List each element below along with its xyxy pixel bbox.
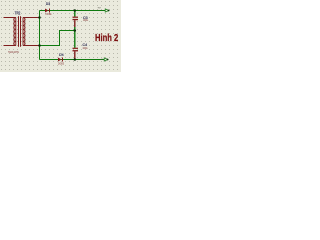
secondary coil bbox=[23, 18, 25, 46]
background bbox=[0, 0, 121, 72]
pin top-left bbox=[4, 17, 16, 19]
pin bottom-left bbox=[4, 45, 16, 47]
wire: bottom rail y=59 from x=39 to arrow bbox=[40, 59, 105, 61]
pin top-right bbox=[23, 17, 40, 19]
junction dot (39,17.5) bbox=[38, 16, 41, 19]
diode D3 bbox=[45, 9, 50, 13]
svg-text:1000u: 1000u bbox=[83, 19, 89, 22]
primary coil baseline bbox=[15, 18, 17, 46]
wire: top rail y=10 from x=39 to arrow bbox=[40, 10, 106, 12]
svg-text:D4: D4 bbox=[59, 52, 64, 57]
svg-text:TRAN-2P3S: TRAN-2P3S bbox=[8, 51, 19, 54]
junction dot (74.5,59) bbox=[74, 58, 77, 61]
primary coil bbox=[14, 18, 16, 46]
transformer TR2 bbox=[4, 16, 40, 46]
junction dot (74.5,10) bbox=[74, 9, 77, 12]
core line 2 bbox=[20, 16, 22, 46]
junction dot (74.5,30.5) bbox=[74, 29, 77, 32]
junction dot (39,45.5) bbox=[38, 44, 41, 47]
svg-text:TR2: TR2 bbox=[15, 11, 21, 16]
svg-text:1000u: 1000u bbox=[83, 47, 89, 50]
wire: jog from (39,45.3) right-up-right to centre junction bbox=[40, 31, 75, 46]
svg-text:D3: D3 bbox=[46, 1, 51, 6]
svg-text:+v: +v bbox=[97, 6, 101, 10]
wire: centre rail between C3 and C4 bbox=[74, 27, 76, 48]
diode D4 bbox=[58, 58, 63, 62]
svg-text:Hinh 2: Hinh 2 bbox=[95, 33, 119, 44]
svg-text:DIODE: DIODE bbox=[46, 13, 52, 16]
wire: vertical rail x=39 from y=10 to y=59 bbox=[39, 11, 41, 60]
pin bottom-right bbox=[23, 45, 40, 47]
wire: C3 top lead bbox=[74, 11, 76, 17]
svg-text:DIODE: DIODE bbox=[58, 62, 64, 65]
capacitor C3 bbox=[73, 17, 79, 27]
terminal arrow -V (bottom) bbox=[104, 58, 108, 61]
terminal arrow +V (top) bbox=[105, 9, 109, 12]
capacitor C4 bbox=[73, 48, 79, 60]
secondary coil baseline bbox=[22, 18, 24, 46]
core line 1 bbox=[18, 16, 20, 46]
